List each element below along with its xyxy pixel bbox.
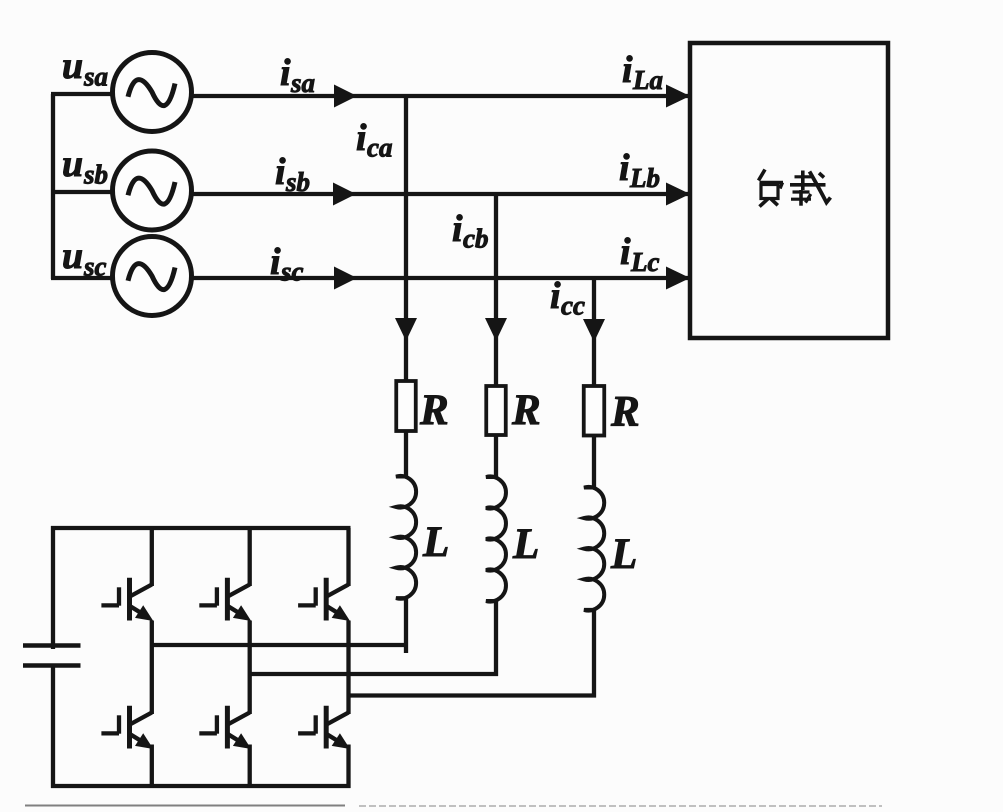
svg-text:La: La	[632, 65, 663, 95]
wire Rb to Lb	[494, 434, 498, 479]
svg-text:sb: sb	[285, 167, 310, 197]
wire leg 1 lower	[150, 745, 154, 789]
transistor Q3 (top IGBT leg 3)	[298, 578, 350, 621]
transistor Q5 (bottom IGBT leg 2)	[199, 706, 251, 749]
scan artifact line right	[359, 805, 882, 807]
svg-text:i: i	[620, 231, 631, 273]
arrow i_sc	[334, 267, 357, 290]
label i_La	[622, 49, 663, 95]
svg-text:Lb: Lb	[629, 163, 660, 193]
label u_sb	[62, 143, 108, 190]
transistor Q1 (top IGBT leg 1)	[101, 578, 153, 621]
svg-text:Lc: Lc	[630, 247, 659, 277]
transistor Q4 (bottom IGBT leg 1)	[101, 706, 153, 749]
wire stub to u_sa	[51, 92, 114, 96]
wire Rc to Lc	[592, 434, 596, 489]
wire phase b line	[190, 192, 692, 196]
transistor Q6 (bottom IGBT leg 3)	[298, 706, 350, 749]
svg-text:L: L	[422, 519, 449, 566]
svg-text:R: R	[610, 389, 640, 436]
voltage source u_sb	[113, 151, 192, 230]
label i_ca	[356, 117, 392, 163]
svg-text:R: R	[511, 387, 541, 434]
wire bridge left edge lower	[51, 665, 55, 788]
wire leg 3 upper	[346, 528, 350, 586]
svg-text:i: i	[356, 117, 367, 159]
wire phase c line	[190, 276, 692, 280]
label u_sa	[62, 45, 108, 92]
svg-text:R: R	[419, 387, 449, 434]
arrow i_Lb	[666, 183, 690, 206]
label i_sa	[280, 52, 315, 98]
label R (branch b)	[511, 387, 541, 434]
arrow i_sb	[333, 183, 356, 206]
resistor R (branch b)	[486, 386, 506, 435]
label i_Lb	[619, 147, 660, 193]
wire phase a line	[190, 94, 692, 98]
wire stub to u_sb	[51, 190, 114, 194]
wire leg 3 middle	[346, 621, 350, 715]
svg-text:sb: sb	[83, 160, 108, 190]
wire branch a vertical	[404, 96, 408, 382]
svg-text:i: i	[619, 147, 630, 189]
load box	[690, 43, 888, 338]
wire inverter output a	[152, 643, 408, 647]
wire Lc down	[592, 610, 596, 698]
svg-text:i: i	[550, 275, 561, 317]
svg-text:L: L	[610, 531, 637, 578]
wire leg 2 upper	[248, 528, 252, 586]
svg-text:i: i	[270, 241, 281, 283]
wire inverter output c	[349, 693, 597, 697]
svg-text:sc: sc	[83, 252, 107, 282]
label L (branch a)	[422, 519, 449, 566]
capacitor C top plate	[23, 643, 81, 648]
svg-text:u: u	[62, 235, 83, 277]
wire Lb down	[494, 601, 498, 676]
svg-text:L: L	[512, 521, 539, 568]
wire La down	[404, 598, 408, 654]
arrow i_sa	[334, 85, 357, 108]
inductor L (branch a)	[396, 476, 416, 599]
voltage source u_sa	[113, 53, 192, 132]
wire bridge top rail	[51, 526, 351, 530]
voltage source u_sc	[113, 237, 192, 316]
wire leg 1 middle	[150, 621, 154, 715]
svg-text:sa: sa	[290, 68, 315, 98]
wire branch c vertical	[592, 278, 596, 387]
svg-text:cb: cb	[463, 224, 488, 254]
wire stub to u_sc	[51, 276, 114, 280]
load label 负	[759, 170, 784, 207]
svg-text:i: i	[280, 52, 291, 94]
label R (branch a)	[419, 387, 449, 434]
label i_sc	[270, 241, 304, 287]
capacitor C bottom plate	[23, 663, 81, 668]
transistor Q2 (top IGBT leg 2)	[199, 578, 251, 621]
resistor R (branch c)	[584, 386, 605, 436]
label u_sc	[62, 235, 107, 282]
svg-text:i: i	[622, 49, 633, 91]
svg-text:i: i	[452, 208, 463, 250]
label i_Lc	[620, 231, 659, 277]
inductor L (branch c)	[584, 487, 604, 611]
wire leg 2 middle	[248, 621, 252, 715]
inductor L (branch b)	[486, 477, 506, 602]
svg-text:u: u	[62, 143, 83, 185]
wire Ra to La	[404, 430, 408, 478]
label L (branch c)	[610, 531, 637, 578]
arrow i_Lc	[666, 267, 690, 290]
wire leg 3 lower	[346, 745, 350, 789]
label L (branch b)	[512, 521, 539, 568]
wire left bus vertical	[51, 94, 55, 279]
svg-text:sa: sa	[83, 62, 108, 92]
label i_cc	[550, 275, 585, 321]
arrow i_La	[666, 85, 690, 108]
wire leg 1 upper	[150, 528, 154, 586]
arrow i_cc	[583, 319, 605, 342]
svg-text:cc: cc	[561, 291, 585, 321]
label i_cb	[452, 208, 488, 254]
scan artifact line left	[25, 805, 345, 807]
svg-text:u: u	[62, 45, 83, 87]
wire branch b vertical	[494, 194, 498, 387]
label R (branch c)	[610, 389, 640, 436]
wire inverter output b	[250, 672, 498, 676]
svg-text:i: i	[275, 151, 286, 193]
svg-text:ca: ca	[367, 133, 392, 163]
resistor R (branch a)	[396, 381, 416, 431]
load label 载	[790, 171, 831, 206]
arrow i_ca	[395, 318, 417, 341]
arrow i_cb	[485, 318, 507, 341]
wire bridge left edge upper	[51, 526, 55, 649]
wire leg 2 lower	[248, 745, 252, 789]
svg-text:sc: sc	[280, 257, 304, 287]
label i_sb	[275, 151, 310, 197]
wire bridge bottom rail	[51, 784, 351, 788]
